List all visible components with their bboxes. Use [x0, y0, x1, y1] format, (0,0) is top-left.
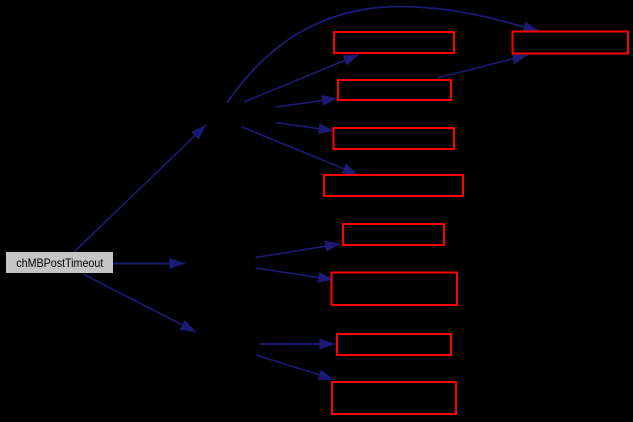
edge hub A -> box2	[276, 98, 338, 107]
edge hub A -> top-right box (long top curve)	[227, 7, 539, 104]
edge chMBPostTimeout -> hub C	[83, 274, 196, 332]
edge box2 -> top-right box	[437, 55, 528, 78]
edge hub B -> box5	[256, 244, 341, 258]
node box6 (red truncated callee, two-line)	[332, 273, 457, 305]
node box2 (red truncated callee, row 2)	[338, 80, 451, 100]
node box8 (red truncated callee, two-line bottom)	[332, 382, 456, 414]
edge hub A -> box1	[244, 55, 359, 103]
node box5 (red truncated callee, row 5)	[343, 224, 444, 245]
node top-right box (red truncated callee)	[513, 32, 629, 54]
svg-text:chMBPostTimeout: chMBPostTimeout	[16, 256, 104, 270]
edge hub C -> box8	[256, 355, 334, 380]
edge hub C -> box7	[260, 343, 335, 345]
edge chMBPostTimeout -> hub B	[113, 263, 185, 265]
node box7 (red truncated callee, row 7)	[337, 334, 451, 355]
node box1 (red truncated callee, row 1 middle)	[334, 32, 454, 53]
edge hub A -> box4	[242, 127, 358, 175]
node box4 (red truncated callee, row 4 wide)	[324, 175, 463, 196]
edge hub A -> box3	[276, 123, 334, 131]
node box3 (red truncated callee, row 3)	[333, 128, 454, 149]
node chMBPostTimeout (current function, grey)	[6, 252, 113, 273]
edge hub B -> box6	[256, 268, 334, 280]
edge chMBPostTimeout -> hub A	[74, 125, 206, 252]
